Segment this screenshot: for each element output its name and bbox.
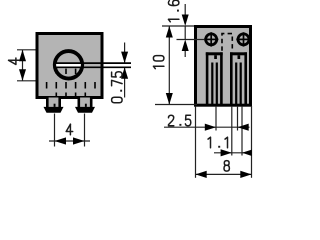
dim text 4 (rotor dia, rotated) xyxy=(9,58,20,65)
dimension: 1.1 (pin thickness) xyxy=(214,152,251,154)
circuit: trimmer potentiometer mechanical dimension drawing, two views xyxy=(0,0,265,180)
dimension: 0.75 (slot width, right of left view) xyxy=(124,43,126,98)
screw head right xyxy=(238,34,249,45)
dimension: 4 (pin spacing, bottom of left view) xyxy=(49,114,90,147)
pin 1 (front view, left) xyxy=(46,98,61,108)
dimension: 2.5 (pin pitch) xyxy=(164,126,250,128)
dimension: 8 (body width) xyxy=(196,173,252,175)
dimension: 1.6 (screw center from top) xyxy=(162,4,205,57)
pin 1 (side view, left) xyxy=(206,52,223,55)
dim text 8 xyxy=(224,161,229,172)
dimension: 10 (body height) xyxy=(168,26,170,105)
pin 2 (side view, right) xyxy=(230,52,247,55)
pin 2 (front view, right) xyxy=(78,98,93,108)
screw head left xyxy=(206,34,217,45)
hidden lines (dashed) inside body xyxy=(47,82,95,98)
body (side view) xyxy=(196,27,251,106)
rotor hidden-line ticks under slot xyxy=(56,69,75,74)
bottom extension lines (side view) xyxy=(196,106,252,178)
dim text 1.6 (rotated) xyxy=(168,0,179,22)
dim text 1.1 xyxy=(208,137,228,148)
dim text 0.75 (rotated) xyxy=(112,72,123,103)
dim text 4 (bottom pin pitch) xyxy=(66,124,73,135)
dim text 2.5 xyxy=(169,115,191,126)
body (front view) xyxy=(37,34,102,98)
rotor circle with screwdriver slot xyxy=(55,51,83,79)
dimension: 4 (rotor diameter, left side) xyxy=(17,50,36,81)
hidden dashed rectangle between screws xyxy=(222,34,232,51)
dim text 10 (rotated) xyxy=(153,56,164,69)
slot edge lines extended right (extension lines for 0.75) xyxy=(54,62,131,64)
